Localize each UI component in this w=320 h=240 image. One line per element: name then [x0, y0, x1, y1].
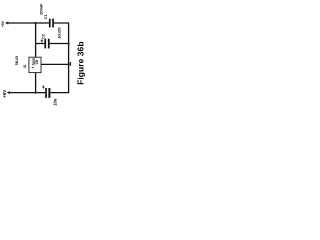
- svg-text:+9V: +9V: [2, 89, 7, 98]
- svg-text:78L05: 78L05: [15, 56, 19, 66]
- svg-text:+5V: +5V: [1, 20, 5, 27]
- svg-text:U1: U1: [23, 64, 27, 68]
- svg-text:C1: C1: [44, 14, 48, 19]
- svg-text:10u25: 10u25: [56, 27, 61, 39]
- svg-text:05: 05: [34, 59, 39, 64]
- svg-text:Figure 36b: Figure 36b: [76, 41, 86, 84]
- svg-text:100nF: 100nF: [39, 3, 44, 15]
- svg-text:10u: 10u: [53, 98, 58, 106]
- svg-text:C2: C2: [42, 34, 46, 38]
